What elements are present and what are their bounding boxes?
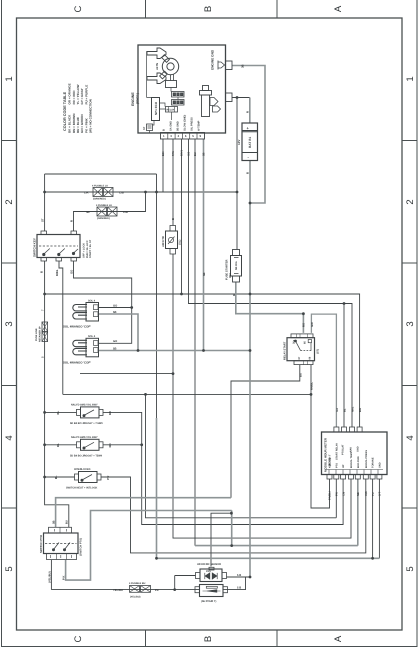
svg-text:RD: RD [108,443,112,447]
key switch top tabs [41,231,47,235]
svg-text:C/B: C/B [123,210,128,214]
svg-text:5D B4 BO JRGOA7 + 7.5W9: 5D B4 BO JRGOA7 + 7.5W9 [70,422,103,425]
fork solenoid 2 prongs [73,340,87,355]
junction node (141.7,444.8) [140,443,143,446]
svg-text:NALYD AMS VOL AWY: NALYD AMS VOL AWY [71,403,98,406]
svg-text:C/B: C/B [119,190,124,194]
svg-text:S T: S T [379,491,382,496]
PTO switch box [44,533,79,554]
engine gnd symbol [218,61,226,70]
svg-text:PK5: PK5 [206,570,211,573]
svg-text:5B: 5B [203,153,206,156]
wire key GO to solenoid forks [74,261,132,343]
PTO switch dashed line [45,543,77,545]
svg-text:RETAINER 2P: RETAINER 2P [38,326,41,342]
svg-text:PN: PN [336,492,339,496]
svg-text:87: 87 [298,356,301,359]
svg-text:2: 2 [178,134,180,138]
SECTION:WIRES [45,98,366,590]
alternator circle inner [167,63,174,70]
key switch bottom tabs [41,258,47,262]
wire x156.5 long [156,174,158,418]
wire switch2 left [45,444,77,446]
wire key-B bus lower [45,261,69,527]
wire switch1 right [103,412,142,444]
svg-text:PTO/LAT: PTO/LAT [342,444,345,455]
SECTION:TEXT [33,49,382,603]
svg-text:SOL 4WANGO 'COP': SOL 4WANGO 'COP' [63,325,91,329]
wire y373.6 to glow drop [80,373,173,375]
PTO switch contacts [54,543,71,550]
start relay tab strip bottom [294,361,313,365]
svg-text:R: R [232,294,236,296]
svg-text:ENGINE: ENGINE [131,92,135,106]
svg-text:5: 5 [192,134,194,138]
wire fork1 5B [99,314,138,351]
svg-text:ENGOL PRESS: ENGOL PRESS [365,450,368,468]
wire y589.6 bottom [51,589,199,591]
wire y394.4 horizontal [63,393,311,395]
svg-text:KEN KEN T: KEN KEN T [329,454,332,468]
svg-text:4 FUSIBLE BU: 4 FUSIBLE BU [129,582,146,585]
svg-text:T/W: T/W [172,151,175,156]
svg-text:B: B [171,218,175,220]
conn1 4WD sensor box [200,569,222,582]
svg-text:SOL 4: SOL 4 [88,299,96,302]
wire glow timer to meter p4 [173,254,351,538]
svg-text:A: A [333,5,344,12]
svg-text:START = B+ ST: START = B+ ST [89,239,92,258]
junction node (44.6,412.4) [43,411,46,414]
junction node (174.7,589.6) [173,588,176,591]
svg-text:30A: 30A [229,273,232,278]
svg-text:ENGOL TEMP: ENGOL TEMP [350,451,353,468]
svg-text:GO: GO [113,304,117,307]
glow timer tab bottom [170,249,176,255]
svg-text:3: 3 [4,321,15,326]
junction node (44.6,444.8) [43,443,46,446]
svg-text:5B: 5B [86,210,90,214]
svg-text:+: + [247,126,250,131]
svg-text:R: R [245,111,249,113]
zone tick top 1 [145,0,147,18]
junction node (250,577) [249,576,252,579]
svg-text:5 B: 5 B [237,587,241,590]
svg-text:1: 1 [4,76,15,81]
svg-text:6: 6 [185,134,187,138]
junction node (250,350.5) [249,349,252,352]
svg-text:5: 5 [41,356,45,358]
wire B feed top [45,173,157,175]
glow timer body [166,231,178,249]
svg-text:PA/BLI: PA/BLI [329,491,332,500]
wire meter pin2 riser [343,304,345,428]
svg-text:C/O: C/O [365,491,368,496]
wire ground bus from battery minus [249,161,251,578]
inline connector on key-B bus [42,322,48,332]
svg-text:ST: ST [143,126,146,130]
junction node (250,203) [249,202,252,205]
svg-text:30a: 30a [293,339,296,344]
svg-text:5: 5 [4,566,15,571]
svg-text:2: 2 [405,199,416,204]
svg-text:NP1 ECU: NP1 ECU [154,102,158,115]
svg-text:4: 4 [405,435,416,440]
svg-text:5B: 5B [113,347,116,350]
oil pressure sender flange [200,91,212,96]
svg-text:SA GND: SA GND [170,121,173,131]
frame outer bottom line [2,646,418,648]
limit switch 1 [81,407,100,418]
zone tick top 2 [276,0,278,18]
junction node (44.6,294) [43,293,46,296]
svg-text:85: 85 [303,341,306,344]
wire conn1 top riser to relay87a line [211,513,231,566]
key switch contacts [44,249,78,255]
svg-text:L/R: L/R [84,190,89,194]
limit switch 2 [81,439,100,450]
svg-text:TU: TU [372,492,375,496]
engine right pin box upper [226,61,233,70]
svg-text:(GL): (GL) [179,240,182,245]
junction node (372.6,558.3) [371,557,374,560]
conn2 side tabs [195,587,200,593]
svg-text:3: 3 [170,134,172,138]
svg-text:UR DR RIF SENSOR: UR DR RIF SENSOR [197,563,221,566]
junction node (44.6,192) [43,191,46,194]
wire engine gnd 3B to battery minus [232,66,265,204]
svg-text:BL: BL [56,443,60,447]
svg-text:BU: BU [194,152,197,156]
junction node (145.5,394.4) [144,393,147,396]
svg-text:CN: CN [342,492,345,496]
svg-text:(ENG1): (ENG1) [136,93,140,104]
svg-text:OIL PRESS: OIL PRESS [191,117,194,131]
wire engine GO drop and bus y303.5 [189,139,353,427]
svg-text:5B GND: 5B GND [177,121,180,131]
oil pressure sender nub [203,86,209,91]
wire link2 from key ACC [74,192,146,231]
wire conn1 left [175,576,196,590]
wire battery plus to engine pin [232,97,250,99]
svg-text:NALYD AMS VOL AWY: NALYD AMS VOL AWY [71,436,98,439]
svg-text:GO: GO [188,152,191,156]
svg-text:4 FUSIBLE LK: 4 FUSIBLE LK [92,185,108,188]
wire battery plus riser R [249,98,251,124]
svg-text:3: 3 [405,321,416,326]
svg-text:7: 7 [41,309,45,311]
glow plug symbol 2 [147,73,166,84]
SECTION:COMPONENTS [37,45,387,597]
wire switch3 right to meter y552 [101,477,366,553]
wire meter p8 riser [378,479,380,558]
wire fork 5B merge to ground [138,350,250,352]
wire meter p7 riser [372,479,374,558]
glow plug symbol 1 [147,48,166,59]
svg-text:B: B [40,271,44,273]
wire engine 5BGND drop [203,139,205,351]
wire engine pin RY drop [181,139,183,294]
svg-text:1: 1 [163,134,165,138]
fork solenoid 1 prongs [73,305,87,320]
junction node (181.5,294) [180,293,183,296]
junction node (237,192) [236,191,239,194]
junction node (156.5,192) [155,191,158,194]
alternator tilted lug lower [160,71,168,79]
junction node (138,350.5) [137,349,140,352]
svg-text:1: 1 [405,76,416,81]
svg-text:PTO: PTO [335,463,338,468]
oil pressure sender body [202,95,210,117]
wire relay87a to y497.7 [231,365,300,498]
svg-text:GAD: GAD [357,446,360,452]
junction node (131.7,307.5) [130,306,133,309]
svg-text:START RELAY: START RELAY [336,443,339,460]
conn1 top tab [209,567,214,570]
conn2 4WD light box [200,585,224,597]
svg-text:2: 2 [4,199,15,204]
svg-text:P K: P K [63,576,66,580]
starter link lines [171,74,174,81]
svg-text:12V: 12V [237,140,241,145]
engine small relay box [166,107,178,113]
wire switch2 right to meter GY [103,445,343,525]
zone ticks left [2,141,17,509]
glow timer tab top [170,226,176,232]
engine bottom pin row [161,133,205,140]
svg-text:BL: BL [344,408,347,412]
alternator circle outer [162,58,178,74]
svg-text:NA1: NA1 [352,406,355,412]
oil sender arrow [210,98,218,106]
junction node (231.4,513.2) [230,512,233,515]
wire switch3 left [45,476,75,478]
PTO switch top strip [49,527,72,533]
alternator tilted lug upper [162,55,170,63]
svg-text:SWITCH NEUT + INTLOCK: SWITCH NEUT + INTLOCK [66,487,98,490]
start relay tab strip top [291,334,313,338]
wire fork2 5B [99,350,138,352]
fork solenoid 1 body [86,303,99,322]
svg-text:BL: BL [54,475,58,479]
svg-text:B: B [163,129,166,131]
wire engine GLOW drop [172,139,174,226]
fusible link pair 1 [93,188,103,197]
wire engine pin BR drop [162,139,164,192]
wire B+ bus y192 [45,191,237,193]
svg-text:-: - [248,155,250,160]
wire meter-BN bus y294 [45,294,360,427]
key switch dashed line [39,245,78,247]
engine ST terminal [147,124,153,131]
wire meter p5 gray [195,479,358,546]
svg-text:9: 9 [200,134,202,138]
wire y497.7 to PTO pin1 [56,498,231,528]
svg-text:R: R [70,220,74,222]
junction node (156.5,558.3) [155,557,158,560]
engine internal links [147,51,178,125]
meter bottom tabs [327,475,332,480]
wire x145.5 to meter y558.3 [146,394,337,517]
svg-text:GA: GA [336,408,339,412]
svg-text:SOL 4WANGO 'COP': SOL 4WANGO 'COP' [63,360,91,364]
svg-text:5B 30A: 5B 30A [235,261,238,270]
svg-text:SWITCH PTO: SWITCH PTO [39,534,43,553]
svg-text:B: B [203,636,214,642]
wire conn2 right riser [223,577,246,590]
start relay internals [296,341,301,351]
svg-text:86: 86 [309,356,312,359]
wire relay86 drop [310,365,312,395]
wire batt+ riser x237 to fuse [236,98,238,250]
svg-text:W TEMP: W TEMP [198,120,201,131]
svg-text:YEL/BU: YEL/BU [113,589,123,592]
junction node (231.7,545.6) [230,544,233,547]
svg-text:RELAY START: RELAY START [284,341,287,360]
junction node (203.5,350.5) [202,349,205,352]
zone tick bottom 1 [145,630,147,647]
fuse tab bottom [233,276,240,282]
svg-text:SWITCH KEY: SWITCH KEY [33,238,37,257]
svg-text:PU: PU [106,476,110,480]
svg-text:(YEL/BU): (YEL/BU) [48,571,51,583]
svg-text:RD: RD [108,411,112,415]
wire key-B bus upper [44,174,46,231]
starter solenoid box below circle [166,81,177,88]
svg-text:COLOR CODE TABLE: COLOR CODE TABLE [63,91,67,131]
junction node (44.6,477) [43,476,46,479]
wire PTO sw drop1 [50,560,52,590]
junction node (344,303.5) [343,302,346,305]
svg-text:5B: 5B [203,273,206,276]
svg-text:(SH POUR T): (SH POUR T) [201,600,216,603]
svg-text:TORANE: TORANE [372,457,375,468]
engine box ENG1 [138,45,226,133]
fork solenoid 2 body [86,338,99,357]
wire relay87 to meter pinA [311,314,336,427]
junction node (145.5,192) [144,191,147,194]
svg-text:NE: NE [357,492,360,496]
zone ticks right [402,141,417,509]
fusible link pair 2 [97,207,107,216]
svg-text:ALTN: ALTN [156,63,159,70]
svg-text:R4/BL: R4/BL [310,382,314,390]
key switch box [37,235,80,258]
zone numbers right [405,76,416,571]
start relay box [287,338,315,361]
junction node (303.4,313.7) [302,312,305,315]
svg-text:4: 4 [4,435,15,440]
svg-text:B: B [246,172,250,174]
junction node (250,294) [249,293,252,296]
frame outer left line [1,0,3,647]
zone letters bottom [73,635,344,642]
svg-text:BAT B1: BAT B1 [248,136,252,148]
limit switch 3 [79,472,98,483]
zone letters top [73,5,344,12]
svg-text:GLOW (GND): GLOW (GND) [184,115,187,131]
svg-text:GW: GW [310,322,314,327]
zone tick bottom 2 [276,630,278,647]
svg-text:B: B [203,6,214,12]
svg-text:PK: PK [155,589,159,592]
fuse body [231,256,242,277]
wire meter p1 to relay86 [311,394,330,508]
svg-text:INTERLOCKD: INTERLOCKD [74,468,91,471]
engine connector strip 2 [172,100,185,106]
svg-text:(ST): (ST) [317,349,320,354]
zone numbers left [4,76,15,571]
svg-text:GO: GO [70,269,74,274]
svg-text:NAV: NAV [350,447,353,452]
battery [242,123,258,161]
svg-text:SOL 4: SOL 4 [88,335,96,338]
water temp sender mark [213,106,221,112]
wire fork1 GO [99,307,132,309]
PTO switch bottom strip [47,554,77,560]
svg-text:ENGINE GND: ENGINE GND [211,49,215,70]
wire conn1 right to gnd [227,576,251,578]
wire switch1 left [45,411,77,413]
svg-text:(GRN/RED): (GRN/RED) [93,198,106,201]
inline link pair bottom [130,586,140,593]
NP1 ECU box [152,98,160,121]
meter top tabs [334,427,339,432]
svg-text:B/K: B/K [162,151,165,156]
svg-text:UP: UP [342,464,345,468]
svg-text:5D B4 BO JRGOA7 + T5W9: 5D B4 BO JRGOA7 + T5W9 [70,454,103,457]
junction node (173,373.6) [172,372,175,375]
wire PTO PK to meter via y517 [66,511,232,581]
svg-text:(W) = NO CONNECTION: (W) = NO CONNECTION [89,99,93,133]
conn1 side tabs [196,573,201,579]
svg-text:ENG RUN: ENG RUN [357,456,360,468]
svg-text:5: 5 [405,566,416,571]
svg-text:GO: GO [113,340,117,343]
svg-text:C: C [73,635,84,642]
wire engine WTEMP to meter y547.6 [194,139,196,546]
svg-text:A: A [333,635,344,642]
conn2 diode symbol [206,586,217,588]
svg-text:R/Y1: R/Y1 [181,150,184,156]
svg-text:(GRN/RED): (GRN/RED) [97,217,110,220]
svg-text:5B: 5B [113,311,116,314]
junction node (237,97.5) [236,96,239,99]
frame outer right line [416,0,418,647]
junction node (311,394.4) [310,393,313,396]
svg-text:(SWITCH PTO): (SWITCH PTO) [80,538,83,556]
svg-text:(YEL/BU): (YEL/BU) [130,595,141,598]
svg-text:5 B: 5 B [237,574,241,577]
wire key R/BL to relay coil line [59,261,63,394]
svg-text:4 FUSIBLE LK: 4 FUSIBLE LK [96,204,112,207]
meter bottom pin number strip [326,470,383,475]
svg-text:BL: BL [56,410,60,414]
wire x156.5 gray lower [157,418,380,558]
svg-text:R/BL: R/BL [55,269,59,276]
svg-text:RELAY: RELAY [167,109,175,112]
svg-text:AIR HTR: AIR HTR [162,236,165,247]
svg-text:C: C [73,5,84,12]
svg-text:BU: BU [66,520,69,524]
svg-text:ST: ST [41,218,45,222]
svg-text:BN: BN [359,408,362,412]
svg-text:5B: 5B [53,521,56,524]
svg-text:BU: BU [298,373,302,377]
svg-text:GND: GND [378,462,381,468]
engine connector strip 1 [172,92,185,98]
fuse tab top [233,250,240,256]
